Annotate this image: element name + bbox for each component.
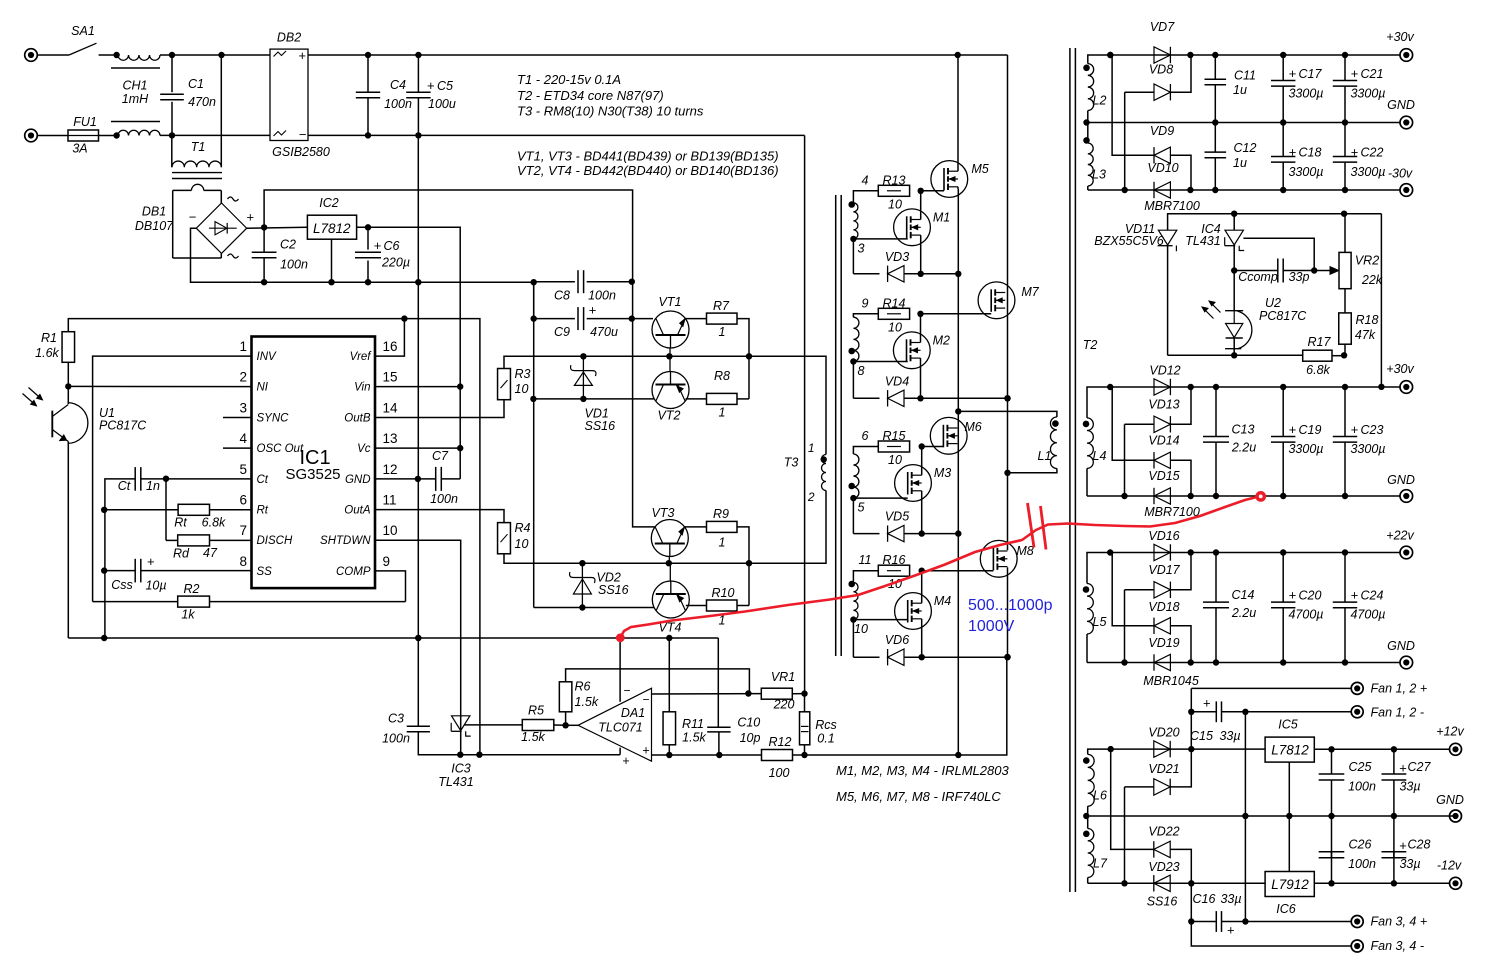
- transistor M6: [930, 417, 967, 454]
- svg-text:+: +: [1399, 761, 1407, 776]
- svg-text:Vin: Vin: [354, 382, 370, 394]
- svg-text:M4: M4: [934, 594, 951, 608]
- svg-text:Fan 3, 4 -: Fan 3, 4 -: [1371, 939, 1425, 953]
- svg-text:R11: R11: [682, 717, 704, 731]
- wire sense rail right: [958, 657, 1007, 755]
- wire R10 right: [737, 605, 749, 607]
- svg-text:8: 8: [239, 554, 247, 569]
- resistor R13: [853, 191, 878, 203]
- transformer T2 core: [1069, 48, 1071, 892]
- svg-text:+12v: +12v: [1436, 725, 1464, 739]
- svg-text:T1 - 220-15v 0.1A: T1 - 220-15v 0.1A: [517, 72, 621, 87]
- svg-text:5: 5: [858, 501, 865, 515]
- svg-text:11: 11: [383, 493, 397, 508]
- winding L7: [1083, 831, 1090, 838]
- svg-text:L7912: L7912: [1271, 877, 1309, 892]
- svg-text:6.8k: 6.8k: [202, 516, 226, 530]
- svg-text:VR2: VR2: [1355, 254, 1379, 268]
- svg-text:12: 12: [383, 462, 398, 477]
- svg-text:15: 15: [383, 370, 398, 385]
- svg-text:500...1000p: 500...1000p: [968, 597, 1053, 614]
- svg-text:VR1: VR1: [771, 670, 795, 684]
- svg-text:VD18: VD18: [1148, 600, 1179, 614]
- svg-text:47: 47: [203, 546, 218, 560]
- diode VD16: [1154, 544, 1170, 560]
- capacitor C23: [1344, 387, 1346, 436]
- svg-text:33µ: 33µ: [1399, 780, 1420, 794]
- wire: [37, 135, 68, 137]
- regulator IC5 L7812: [1265, 737, 1314, 762]
- svg-text:+: +: [299, 48, 307, 63]
- wire driver supply: [533, 282, 535, 319]
- wire gate M6: [922, 446, 944, 448]
- svg-text:VD5: VD5: [885, 510, 909, 524]
- svg-text:100n: 100n: [588, 289, 616, 303]
- wire VD8 anode: [1124, 92, 1126, 190]
- svg-text:SYNC: SYNC: [257, 413, 290, 425]
- svg-text:VD16: VD16: [1148, 529, 1179, 543]
- svg-text:1: 1: [239, 339, 247, 354]
- svg-text:+: +: [1227, 923, 1235, 938]
- wire bottom rail IC1: [68, 637, 718, 639]
- transistor VT3: [651, 520, 688, 557]
- svg-text:L7: L7: [1093, 857, 1108, 871]
- wire M5 source: [957, 187, 959, 189]
- svg-text:C18: C18: [1299, 146, 1322, 160]
- wire gate M3: [853, 497, 907, 499]
- svg-text:C24: C24: [1361, 589, 1384, 603]
- svg-text:R14: R14: [883, 296, 906, 310]
- wire DB1 AC bottom: [173, 257, 222, 259]
- svg-text:C9: C9: [554, 325, 570, 339]
- svg-text:2.2u: 2.2u: [1231, 606, 1256, 620]
- svg-text:IC6: IC6: [1276, 902, 1296, 916]
- node phase B: [1004, 395, 1010, 401]
- terminal Fan34-: [1351, 940, 1363, 952]
- svg-text:OSC Out: OSC Out: [257, 443, 304, 455]
- diode VD17: [1125, 589, 1155, 591]
- svg-text:C4: C4: [390, 78, 406, 92]
- svg-text:T2 - ETD34 core N87(97): T2 - ETD34 core N87(97): [517, 88, 664, 103]
- resistor R16: [853, 571, 878, 583]
- diode VD6: [852, 620, 854, 658]
- node DB1 plus: [247, 226, 308, 229]
- terminal +22v: [1400, 546, 1413, 559]
- capacitor Css: [104, 570, 135, 572]
- terminal GND 4: [1450, 810, 1462, 822]
- svg-text:M5: M5: [971, 162, 988, 176]
- terminal GND: [1400, 116, 1413, 129]
- svg-text:1u: 1u: [1233, 156, 1247, 170]
- wire gate M5: [921, 190, 944, 192]
- resistor Rd: [166, 539, 178, 541]
- svg-text:−: −: [299, 127, 307, 142]
- diode VD14: [1112, 387, 1154, 460]
- svg-text:14: 14: [383, 401, 399, 416]
- wire: [99, 135, 119, 137]
- svg-text:IC2: IC2: [319, 196, 339, 210]
- regulator IC2 L7812: [307, 215, 356, 239]
- svg-text:4700µ: 4700µ: [1288, 608, 1323, 622]
- bridge rectifier DB1: [196, 203, 246, 253]
- svg-text:C26: C26: [1349, 838, 1372, 852]
- wire gnd top rail: [68, 319, 480, 755]
- wire Vref pin16: [375, 319, 404, 357]
- wire base line lower: [534, 562, 749, 564]
- wire M4 source: [921, 619, 923, 657]
- svg-text:100u: 100u: [428, 97, 456, 111]
- transformer T1 core: [172, 172, 222, 174]
- optocoupler U2 LED: [1225, 310, 1243, 312]
- svg-text:Ct: Ct: [118, 479, 131, 493]
- svg-text:VD6: VD6: [885, 633, 909, 647]
- svg-text:VD3: VD3: [885, 250, 909, 264]
- svg-text:3300µ: 3300µ: [1350, 87, 1385, 101]
- wire GND mid rail fans: [1086, 815, 1455, 817]
- wire gate M7: [921, 313, 992, 315]
- transistor VT2: [652, 372, 689, 409]
- svg-text:TLC071: TLC071: [598, 721, 642, 735]
- wire VT1 emitter: [686, 318, 707, 320]
- svg-text:4: 4: [862, 173, 869, 187]
- choke CH1 core: [111, 67, 160, 69]
- svg-text:10: 10: [854, 622, 868, 636]
- capacitor C15: [1191, 711, 1215, 713]
- svg-text:+: +: [147, 554, 155, 569]
- terminal +30v 2: [1400, 381, 1413, 394]
- svg-text:13: 13: [383, 431, 398, 446]
- svg-text:+: +: [1289, 145, 1297, 160]
- wire Rt Rd column: [165, 479, 167, 541]
- svg-text:VD21: VD21: [1148, 762, 1179, 776]
- svg-text:1: 1: [719, 325, 726, 339]
- wire V+ pin DA1: [619, 638, 621, 702]
- svg-text:5: 5: [239, 462, 247, 477]
- svg-text:Rt: Rt: [174, 516, 187, 530]
- wire gate M8: [922, 570, 994, 572]
- svg-text:M1: M1: [933, 210, 950, 224]
- svg-text:6: 6: [862, 429, 869, 443]
- wire base line upper: [534, 355, 749, 357]
- transformer T3 primary: [822, 455, 827, 491]
- pin4 OSC stub: [223, 447, 252, 449]
- svg-text:C6: C6: [384, 239, 400, 253]
- svg-text:VT1: VT1: [659, 295, 682, 309]
- wire gnd rail 2: [1087, 495, 1400, 497]
- svg-text:3300µ: 3300µ: [1288, 442, 1323, 456]
- svg-text:M7: M7: [1021, 285, 1039, 299]
- wire to T3 pin2: [749, 491, 826, 564]
- svg-text:SS16: SS16: [598, 583, 629, 597]
- svg-text:PC817C: PC817C: [99, 419, 147, 433]
- svg-text:L5: L5: [1093, 615, 1107, 629]
- svg-text:T3: T3: [784, 456, 799, 470]
- svg-text:R9: R9: [713, 507, 729, 521]
- transistor M3: [895, 465, 932, 502]
- svg-text:VD10: VD10: [1147, 161, 1178, 175]
- svg-text:TL431: TL431: [438, 775, 473, 789]
- capacitor Ct: [105, 479, 135, 638]
- svg-text:33p: 33p: [1289, 270, 1310, 284]
- svg-text:3A: 3A: [72, 142, 87, 156]
- wire V- pin DA1: [619, 748, 621, 755]
- svg-text:DISCH: DISCH: [257, 535, 293, 547]
- wire R6 bottom: [565, 712, 567, 726]
- svg-text:+: +: [1351, 422, 1359, 437]
- capacitor C13: [1215, 387, 1217, 436]
- diode VD7: [1154, 47, 1170, 63]
- svg-text:2: 2: [239, 370, 247, 385]
- svg-text:100n: 100n: [1348, 857, 1376, 871]
- svg-text:-12v: -12v: [1437, 859, 1462, 873]
- svg-text:GND: GND: [1436, 793, 1464, 807]
- svg-text:Vc: Vc: [357, 443, 371, 455]
- capacitor C18: [1282, 123, 1284, 157]
- svg-text:100n: 100n: [430, 492, 458, 506]
- diode VD3: [852, 239, 854, 274]
- capacitor C3: [407, 725, 430, 727]
- svg-text:FU1: FU1: [73, 115, 97, 129]
- terminal GND 3: [1400, 656, 1413, 669]
- diode VD22: [1111, 749, 1154, 849]
- wire M4 drain: [921, 571, 923, 604]
- wire M3 source: [921, 491, 923, 534]
- svg-text:+: +: [1399, 838, 1407, 853]
- wire VD21 anode: [1124, 787, 1126, 883]
- resistor R18: [1344, 289, 1346, 313]
- svg-text:+: +: [642, 744, 649, 758]
- svg-text:GND: GND: [345, 474, 371, 486]
- svg-text:DB107: DB107: [135, 219, 174, 233]
- svg-text:1.5k: 1.5k: [521, 730, 545, 744]
- svg-text:C21: C21: [1361, 67, 1384, 81]
- svg-text:C13: C13: [1232, 423, 1255, 437]
- svg-text:C5: C5: [437, 79, 453, 93]
- svg-text:T3 - RM8(10) N30(T38) 10 turns: T3 - RM8(10) N30(T38) 10 turns: [517, 104, 704, 119]
- terminal +12v: [1450, 743, 1462, 755]
- diode VD20: [1154, 741, 1170, 757]
- diode VD4: [852, 362, 854, 399]
- svg-text:+: +: [1203, 696, 1211, 711]
- svg-text:VT2, VT4 - BD442(BD440) or BD1: VT2, VT4 - BD442(BD440) or BD140(BD136): [517, 163, 779, 178]
- wire +12v rail: [1111, 748, 1265, 750]
- svg-text:R18: R18: [1356, 313, 1379, 327]
- svg-text:+: +: [1351, 588, 1359, 603]
- IC IC1 SG3525: [252, 337, 376, 589]
- svg-text:8: 8: [858, 364, 865, 378]
- svg-text:+: +: [374, 238, 382, 253]
- wire fan34 minus: [1191, 922, 1351, 947]
- winding T3 6-5: [853, 454, 859, 498]
- svg-text:22k: 22k: [1361, 273, 1383, 287]
- svg-text:SHTDWN: SHTDWN: [320, 535, 371, 547]
- svg-text:−: −: [642, 693, 649, 707]
- wire phase A bus: [957, 189, 959, 755]
- svg-text:INV: INV: [257, 351, 278, 363]
- svg-text:Css: Css: [111, 578, 133, 592]
- terminal mains N: [25, 129, 38, 142]
- diode VD10: [1154, 182, 1170, 198]
- svg-text:VD7: VD7: [1150, 20, 1175, 34]
- resistor R5: [464, 724, 522, 726]
- wire -12v rail: [1088, 882, 1265, 884]
- svg-text:COMP: COMP: [336, 566, 371, 578]
- svg-text:4: 4: [239, 431, 247, 446]
- wire gnd mid rail: [1087, 122, 1401, 124]
- shunt regulator IC3 TL431: [452, 716, 470, 731]
- svg-text:+: +: [1351, 145, 1359, 160]
- wire gnd rail IC2: [252, 281, 533, 283]
- wire collector line lower: [534, 607, 654, 609]
- resistor R2: [93, 601, 178, 603]
- svg-text:C28: C28: [1408, 838, 1431, 852]
- svg-text:R8: R8: [714, 369, 730, 383]
- svg-text:M5, M6, M7, M8 - IRF740LC: M5, M6, M7, M8 - IRF740LC: [836, 789, 1001, 804]
- resistor R17: [1303, 350, 1332, 361]
- pin3 SYNC stub: [223, 417, 252, 419]
- svg-text:Rcs: Rcs: [815, 718, 837, 732]
- diode VD9: [1112, 55, 1154, 155]
- wire noninverting input rail: [652, 754, 762, 756]
- wire IC6 gnd pin: [1288, 816, 1290, 872]
- wire gate M4: [853, 619, 907, 621]
- svg-text:VD15: VD15: [1148, 469, 1179, 483]
- svg-text:1.5k: 1.5k: [575, 695, 599, 709]
- resistor R4: [375, 510, 504, 523]
- wire VT3 collector: [652, 526, 655, 528]
- wire +30v rail 2: [1110, 386, 1400, 388]
- svg-text:1000V: 1000V: [968, 618, 1015, 635]
- wire -30v rail: [1088, 189, 1400, 191]
- U2 light arrows: [1204, 309, 1214, 319]
- winding L6: [1088, 749, 1111, 754]
- wire: [160, 54, 270, 56]
- transistor VT4: [652, 581, 689, 618]
- wire M3 drain: [921, 447, 923, 476]
- svg-text:7: 7: [239, 523, 247, 538]
- svg-text:M3: M3: [934, 466, 951, 480]
- capacitor C10: [717, 638, 719, 727]
- wire IC2 out: [357, 227, 461, 479]
- bridge rectifier DB2: [270, 49, 308, 140]
- wire fan12 plus: [1191, 687, 1351, 689]
- svg-text:OutA: OutA: [344, 505, 371, 517]
- wire: [160, 134, 270, 136]
- svg-text:6.8k: 6.8k: [1306, 363, 1330, 377]
- resistor R3: [375, 400, 504, 418]
- diode VD15: [1154, 488, 1170, 504]
- svg-text:VD8: VD8: [1149, 63, 1173, 77]
- diode VD1 SS16: [582, 356, 584, 399]
- wire DC- drop: [804, 135, 806, 693]
- wire M1 source: [920, 235, 922, 274]
- svg-text:3300µ: 3300µ: [1288, 87, 1323, 101]
- svg-text:+: +: [1289, 66, 1297, 81]
- winding L4: [1087, 387, 1110, 418]
- svg-text:+: +: [1351, 66, 1359, 81]
- svg-text:R2: R2: [184, 582, 200, 596]
- svg-text:3300µ: 3300µ: [1288, 165, 1323, 179]
- svg-text:33µ: 33µ: [1219, 729, 1240, 743]
- capacitor C24: [1344, 553, 1346, 603]
- svg-text:MBR7100: MBR7100: [1144, 505, 1200, 519]
- capacitor Ccomp: [1231, 267, 1237, 273]
- svg-text:9: 9: [862, 296, 869, 310]
- svg-text:Rt: Rt: [257, 505, 269, 517]
- zener VD11 BZX55C5V6: [1158, 230, 1176, 245]
- potentiometer VR2: [1344, 214, 1346, 253]
- svg-text:BZX55C5V6: BZX55C5V6: [1094, 234, 1164, 248]
- wire gnd rail lower: [461, 754, 620, 756]
- capacitor C2: [263, 227, 265, 251]
- capacitor C7: [435, 467, 437, 491]
- wire R8 right: [737, 398, 749, 400]
- svg-text:R12: R12: [769, 735, 792, 749]
- transistor M7: [978, 282, 1015, 319]
- diode VD23: [1154, 875, 1170, 891]
- svg-text:VD14: VD14: [1148, 434, 1179, 448]
- capacitor C1: [171, 55, 173, 92]
- svg-text:R3: R3: [515, 367, 531, 381]
- transformer T3 core: [835, 195, 837, 656]
- winding T3 11-10: [853, 583, 858, 620]
- svg-text:DB2: DB2: [277, 31, 301, 45]
- svg-text:C19: C19: [1299, 423, 1322, 437]
- resistor R11: [668, 638, 670, 712]
- wire M5 drain: [957, 55, 959, 171]
- svg-text:Fan 3, 4 +: Fan 3, 4 +: [1371, 915, 1428, 929]
- svg-text:6: 6: [239, 493, 247, 508]
- svg-text:C17: C17: [1299, 67, 1323, 81]
- svg-text:1.6k: 1.6k: [35, 346, 59, 360]
- diode VD8: [1110, 54, 1112, 56]
- terminal +30v: [1400, 49, 1413, 62]
- svg-text:T2: T2: [1083, 338, 1098, 352]
- wire U2 cathode rail: [1168, 354, 1303, 356]
- wire VT4 emitter: [686, 605, 707, 607]
- svg-text:47k: 47k: [1355, 328, 1376, 342]
- svg-text:L7812: L7812: [1271, 743, 1309, 758]
- svg-text:1u: 1u: [1233, 83, 1247, 97]
- svg-text:R1: R1: [41, 331, 57, 345]
- svg-text:4700µ: 4700µ: [1350, 608, 1385, 622]
- wire fan common column: [1244, 712, 1246, 922]
- capacitor C28: [1393, 852, 1395, 884]
- svg-text:L7812: L7812: [313, 221, 351, 236]
- wire M6 drain link: [955, 408, 961, 414]
- svg-text:10: 10: [383, 523, 398, 538]
- wire M2 drain: [920, 314, 922, 343]
- terminal GND 2: [1400, 490, 1413, 503]
- wire Vc pin13: [375, 447, 460, 449]
- svg-text:Vref: Vref: [350, 351, 373, 363]
- capacitor C14: [1215, 553, 1217, 603]
- wire DC- rail: [308, 134, 805, 136]
- svg-text:C12: C12: [1234, 141, 1257, 155]
- terminal -12v: [1450, 877, 1462, 889]
- wire +12v out: [1314, 748, 1449, 750]
- svg-text:+22v: +22v: [1386, 529, 1414, 543]
- svg-text:L2: L2: [1093, 94, 1107, 108]
- svg-text:C3: C3: [388, 712, 404, 726]
- svg-text:3300µ: 3300µ: [1350, 442, 1385, 456]
- svg-text:M1, M2, M3, M4 - IRLML2803: M1, M2, M3, M4 - IRLML2803: [836, 763, 1009, 778]
- wire wiper arrow VR2: [1314, 270, 1332, 272]
- transformer T1 primary: [171, 135, 173, 167]
- wire +30 sense: [1380, 214, 1382, 387]
- wire M8 source bus: [1007, 567, 1009, 657]
- svg-text:3: 3: [239, 401, 247, 416]
